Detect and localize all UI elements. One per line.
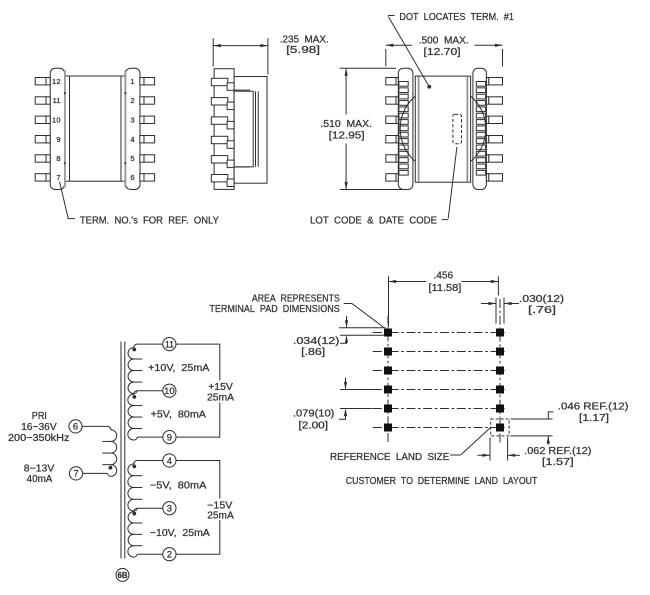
- svg-text:.456: .456: [433, 270, 453, 282]
- wire winding to pin 2: [137, 553, 163, 555]
- bottom view left stub 5: [399, 107, 408, 112]
- dim .500 extension lines: [385, 49, 387, 67]
- bottom view right stub 1: [476, 82, 485, 87]
- pin 2 terminal: [163, 548, 176, 561]
- bottom view right pin 2: [486, 97, 488, 104]
- terminal pad R3: [496, 367, 504, 375]
- svg-text:5: 5: [130, 154, 134, 163]
- svg-text:25mA: 25mA: [207, 392, 234, 404]
- schematic note 6B: [116, 568, 129, 581]
- dim .510 extension lines: [340, 67, 396, 69]
- pin 11 terminal: [163, 338, 176, 351]
- svg-text:[2.00]: [2.00]: [299, 419, 329, 431]
- svg-text:40mA: 40mA: [27, 473, 53, 485]
- lot/date code dashed box: [453, 114, 462, 143]
- terminal #1 dot: [427, 85, 431, 89]
- front view pin 11 lead: [35, 97, 46, 104]
- bottom view right stub 5: [476, 107, 485, 112]
- svg-text:9: 9: [167, 432, 172, 443]
- land left column centerline: [387, 316, 389, 445]
- front view pin 12 lead: [35, 78, 46, 85]
- side view top step lines: [234, 89, 250, 91]
- bottom view left stub 8: [399, 126, 408, 131]
- svg-text:9: 9: [56, 135, 60, 144]
- svg-text:6: 6: [73, 422, 78, 433]
- text mask -15V: [206, 499, 236, 521]
- bottom view right stub 6: [476, 113, 485, 118]
- svg-text:DOT LOCATES TERM. #1: DOT LOCATES TERM. #1: [399, 11, 514, 23]
- svg-text:6: 6: [130, 173, 134, 182]
- pin 9 terminal: [163, 431, 176, 444]
- svg-text:7: 7: [73, 469, 78, 480]
- bottom view left pin 12: [386, 78, 396, 85]
- svg-text:REFERENCE LAND SIZE: REFERENCE LAND SIZE: [330, 451, 449, 463]
- pin 7 terminal: [69, 467, 82, 480]
- bottom view right stub 13: [476, 158, 485, 163]
- svg-text:[.86]: [.86]: [301, 346, 325, 358]
- svg-text:6B: 6B: [118, 570, 128, 580]
- dot winding 4: [132, 465, 136, 469]
- svg-text:CUSTOMER TO DETERMINE LAND: CUSTOMER TO DETERMINE LAND LAYOUT: [346, 475, 538, 487]
- dim .046 extension lines: [511, 418, 553, 420]
- svg-text:TERMINAL PAD DIMENSIONS: TERMINAL PAD DIMENSIONS: [209, 303, 339, 315]
- bottom view left stub 4: [399, 101, 408, 106]
- svg-text:+10V, 25mA: +10V, 25mA: [148, 362, 209, 374]
- bottom view right pin 1: [486, 78, 488, 85]
- land row 2 centerline: [373, 351, 508, 353]
- front view pin 5 lead: [140, 155, 144, 162]
- wire winding to pin 10: [137, 390, 163, 392]
- land row 3 centerline: [373, 370, 508, 372]
- secondary winding 4-3: [128, 461, 137, 512]
- terminal pad R2: [496, 348, 504, 356]
- terminal pad L1: [384, 329, 392, 337]
- text mask +15V: [207, 381, 236, 403]
- svg-text:3: 3: [167, 504, 172, 515]
- wire winding to pin 4: [137, 460, 163, 462]
- bottom view left stub 7: [399, 120, 408, 125]
- svg-text:2: 2: [167, 550, 172, 561]
- svg-text:+5V, 80mA: +5V, 80mA: [151, 409, 206, 421]
- side view lead 2: [211, 98, 228, 105]
- bottom view coil circle: [400, 86, 486, 172]
- bottom view right stub 12: [476, 151, 485, 156]
- terminal pad L6: [384, 424, 392, 432]
- secondary winding 10-9: [128, 391, 137, 440]
- bottom view right stub 15: [476, 170, 485, 175]
- bottom view right stub 8: [476, 126, 485, 131]
- svg-text:[.76]: [.76]: [528, 304, 556, 316]
- bottom view right stub 9: [476, 132, 485, 137]
- transformer core: [120, 342, 122, 559]
- svg-text:11: 11: [165, 339, 174, 350]
- land right column centerline: [499, 299, 501, 445]
- svg-text:8: 8: [56, 154, 60, 163]
- bottom view body: [415, 76, 470, 182]
- terminal pad R6: [496, 424, 504, 432]
- dim .500 dimension line: [386, 44, 412, 46]
- pin 10 terminal: [163, 384, 176, 397]
- svg-text:[11.58]: [11.58]: [429, 282, 462, 294]
- dim .046 bracket: [548, 412, 553, 419]
- front view pin 4 lead: [140, 136, 144, 143]
- terminal pad R4: [496, 386, 504, 394]
- bracket +15V output: [176, 344, 220, 437]
- side view lead 6: [211, 175, 228, 182]
- svg-text:11: 11: [53, 96, 61, 105]
- leader LOT CODE: [442, 219, 448, 221]
- primary winding: [108, 426, 117, 476]
- bottom view left pin 8: [386, 155, 396, 162]
- leader DOT LOCATES: [388, 15, 395, 17]
- pin 4 terminal: [163, 454, 176, 467]
- secondary winding 11-10: [128, 344, 137, 394]
- secondary winding 3-2: [128, 508, 137, 557]
- front view pin 8 lead: [35, 155, 46, 162]
- bottom view right flange: [473, 68, 487, 189]
- terminal pad L4: [384, 386, 392, 394]
- leader area represents: [344, 303, 352, 305]
- terminal pad L3: [384, 367, 392, 375]
- bottom view right stub 14: [476, 164, 485, 169]
- svg-text:TERM. NO.'s FOR REF. ONLY: TERM. NO.'s FOR REF. ONLY: [80, 215, 219, 227]
- side view lead 3: [211, 117, 228, 124]
- side view body profile: [234, 77, 267, 184]
- wire winding to pin 9: [137, 436, 163, 438]
- land row 6 centerline: [373, 427, 508, 429]
- svg-text:2: 2: [130, 96, 134, 105]
- front view pin 3 lead: [140, 116, 144, 123]
- bottom view right stub 3: [476, 94, 485, 99]
- svg-text:4: 4: [167, 456, 172, 467]
- bottom view right pin 5: [486, 155, 488, 162]
- pin 6 terminal: [69, 420, 82, 433]
- bottom view left pin 11: [386, 97, 396, 104]
- dim .079 arrows: [345, 378, 347, 390]
- side view lead 1: [211, 78, 228, 85]
- bottom view left stub 6: [399, 113, 408, 118]
- front view pin 10 lead: [35, 116, 46, 123]
- dim .062 arrows: [478, 454, 491, 456]
- front view pin 1 lead: [140, 78, 144, 85]
- bottom view left pin 9: [386, 136, 396, 143]
- dot winding 10: [132, 395, 136, 399]
- bottom view left stub 12: [399, 151, 408, 156]
- bracket -15V output: [176, 461, 220, 555]
- bottom view right stub 2: [476, 88, 485, 93]
- front view left flange: [50, 68, 64, 189]
- wire winding to pin 11: [137, 343, 163, 345]
- side view lead 5: [211, 156, 228, 163]
- wire winding to pin 3: [137, 507, 163, 509]
- terminal pad L2: [384, 348, 392, 356]
- bottom view left stub 15: [399, 170, 408, 175]
- bottom view left stub 3: [399, 94, 408, 99]
- land row 5 centerline: [373, 408, 508, 410]
- bottom view left stub 13: [399, 158, 408, 163]
- dim .062 extension lines: [489, 438, 491, 461]
- side view flange profile: [214, 69, 234, 190]
- front view flange notch marks: [64, 92, 66, 94]
- dim .235 extension lines: [212, 38, 214, 66]
- side view lead 4: [211, 136, 228, 143]
- primary polarity dot: [109, 466, 113, 470]
- svg-text:10: 10: [52, 116, 61, 125]
- front view pin 6 lead: [140, 174, 144, 181]
- dot winding 3: [132, 512, 136, 516]
- reference land dashed box: [491, 419, 509, 436]
- terminal pad R1: [496, 329, 504, 337]
- land row 1 centerline: [373, 332, 508, 334]
- svg-text:−5V, 80mA: −5V, 80mA: [150, 480, 207, 492]
- svg-text:12: 12: [52, 77, 61, 86]
- svg-text:[5.98]: [5.98]: [286, 44, 320, 56]
- bottom view left pin 10: [386, 116, 396, 123]
- svg-text:.500 MAX.: .500 MAX.: [419, 35, 469, 47]
- dim .034 extension lines: [339, 327, 386, 329]
- svg-text:[1.17]: [1.17]: [579, 412, 609, 424]
- bottom view right stub 11: [476, 145, 485, 150]
- svg-text:[1.57]: [1.57]: [542, 456, 574, 468]
- dim .510 dimension line: [345, 68, 347, 114]
- bottom view right pin 4: [486, 136, 488, 143]
- dim .030 extension lines: [495, 298, 497, 324]
- svg-text:25mA: 25mA: [207, 509, 234, 521]
- bottom view left stub 11: [399, 145, 408, 150]
- svg-text:10: 10: [164, 386, 175, 397]
- svg-text:.079(10): .079(10): [293, 408, 335, 420]
- bottom view right stub 10: [476, 139, 485, 144]
- bottom view left stub 9: [399, 132, 408, 137]
- svg-text:[12.70]: [12.70]: [424, 46, 461, 58]
- svg-text:4: 4: [130, 135, 134, 144]
- terminal pad L5: [384, 405, 392, 413]
- front view body outline: [65, 76, 126, 181]
- wire pin6 to primary: [82, 425, 108, 427]
- front view right flange: [126, 68, 140, 189]
- bottom view left pin 7: [386, 174, 396, 181]
- svg-text:.510 MAX.: .510 MAX.: [320, 118, 372, 130]
- bottom view right stub 7: [476, 120, 485, 125]
- front view pin 9 lead: [35, 136, 46, 143]
- svg-text:200−350kHz: 200−350kHz: [8, 432, 69, 444]
- dim .235 dimension line: [213, 45, 268, 47]
- pin 3 terminal: [163, 502, 176, 515]
- dim .456 dimension line: [389, 281, 427, 283]
- svg-text:LOT CODE & DATE CODE: LOT CODE & DATE CODE: [310, 214, 437, 226]
- svg-text:−10V, 25mA: −10V, 25mA: [150, 527, 210, 539]
- front view flange inner edge shading: [64, 70, 66, 188]
- bottom view left stub 1: [399, 82, 408, 87]
- land row 4 centerline: [373, 389, 508, 391]
- bottom view right stub 4: [476, 101, 485, 106]
- bottom view right pin 6: [486, 174, 488, 181]
- terminal pad R5: [496, 405, 504, 413]
- dim .456 extension lines: [388, 276, 390, 327]
- bottom view left stub 2: [399, 88, 408, 93]
- svg-text:1: 1: [130, 77, 134, 86]
- dot winding 11: [132, 348, 136, 352]
- dim .079 extension lines: [340, 389, 373, 391]
- svg-text:3: 3: [130, 116, 134, 125]
- bottom view left flange: [398, 68, 413, 189]
- side view recess: [234, 91, 253, 167]
- svg-text:[12.95]: [12.95]: [329, 130, 365, 142]
- bottom view left stub 10: [399, 139, 408, 144]
- leader to pin 7: [60, 182, 76, 219]
- bottom view right pin 3: [486, 116, 488, 123]
- dim .030 arrows: [481, 303, 496, 305]
- front view pin 2 lead: [140, 97, 144, 104]
- dim .034 arrows: [346, 316, 348, 328]
- svg-text:.046 REF.(12): .046 REF.(12): [558, 400, 629, 412]
- bottom view left stub 14: [399, 164, 408, 169]
- leader reference land size: [450, 454, 461, 456]
- front view pin 7 lead: [35, 174, 46, 181]
- wire pin7 to primary: [82, 472, 108, 474]
- svg-text:7: 7: [56, 173, 60, 182]
